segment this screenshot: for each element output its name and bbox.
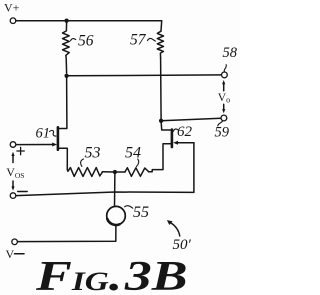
resistor R54 <box>125 168 149 177</box>
label Vo <box>218 92 230 105</box>
label minus sign <box>18 191 28 193</box>
terminal 59 <box>221 115 227 121</box>
terminal 58 <box>222 72 228 78</box>
svg-text:FIG.3B: FIG.3B <box>35 253 188 295</box>
label 57 with tilde <box>130 32 155 49</box>
label 62 with tilde <box>173 124 192 140</box>
wire source Q61 down to R53 <box>59 148 67 169</box>
arrow Vo down toward 59 <box>222 104 225 113</box>
wire R57 bottom down to node at rail 59 <box>160 58 163 121</box>
svg-text:V: V <box>6 247 15 261</box>
node junction dot rail 59 / drain Q62 <box>159 119 163 123</box>
wire top rail from V+ to R57 <box>16 20 162 22</box>
wire drain Q61 up to node <box>59 76 67 129</box>
wire R54 right up to source Q62 <box>149 144 171 172</box>
transistor Q61 channel bar <box>57 127 60 149</box>
terminal V+ <box>10 18 16 24</box>
wire rail to terminal 59 <box>161 118 221 121</box>
svg-text:54: 54 <box>125 145 141 162</box>
arrow Vos up <box>11 152 14 163</box>
resistor R53 <box>67 168 102 177</box>
svg-text:V+: V+ <box>4 1 20 15</box>
wire R53 right to node <box>103 171 115 173</box>
label 61 with curl <box>36 126 56 142</box>
wire drain Q62 to node <box>161 121 171 130</box>
gate Q61 wire with arrow <box>16 143 57 147</box>
label plus sign <box>17 147 24 155</box>
terminal Vos+ <box>10 142 16 148</box>
wire rail to terminal 58 <box>67 74 222 77</box>
node junction dot R56 bottom / drain Q61 / rail 58 <box>64 74 68 78</box>
current source I55 circle <box>107 206 126 225</box>
resistor R56 <box>63 23 70 73</box>
label 55 with squiggle <box>125 204 149 221</box>
terminal Vos- <box>10 193 16 199</box>
svg-text:56: 56 <box>78 32 94 49</box>
node junction dot top of R56 <box>64 19 68 23</box>
svg-text:61: 61 <box>36 126 51 142</box>
svg-text:59: 59 <box>215 125 230 141</box>
arrow Vo up toward 58 <box>222 80 225 91</box>
svg-text:53: 53 <box>85 145 101 162</box>
squiggle lead to label 58 <box>224 65 226 72</box>
resistor R57 <box>157 21 163 58</box>
arrow pointer 50' <box>167 220 180 236</box>
squiggle lead to label 59 <box>218 121 223 126</box>
label 53 with curl <box>81 145 101 167</box>
caption Fig.3B <box>35 253 188 295</box>
wire gate Q62 down and left to Vos- terminal <box>16 143 194 196</box>
arrow Vos down <box>11 181 14 191</box>
svg-text:62: 62 <box>177 124 193 140</box>
terminal V- <box>12 239 18 245</box>
svg-text:Vo: Vo <box>218 92 230 105</box>
svg-text:55: 55 <box>133 204 149 221</box>
wire node to R54 <box>115 171 125 173</box>
svg-text:58: 58 <box>223 45 238 61</box>
label 56 with tilde <box>71 32 94 49</box>
label 54 with curl <box>125 145 141 167</box>
svg-text:57: 57 <box>130 32 147 49</box>
svg-text:VOS: VOS <box>6 165 24 180</box>
wire node down to current source <box>114 172 116 207</box>
gate Q62 wire with arrow <box>173 141 194 145</box>
svg-text:50′: 50′ <box>173 237 192 253</box>
node junction dot R53/R54/current source <box>113 170 117 174</box>
transistor Q62 channel bar <box>171 130 174 148</box>
wire current source down and left to V- terminal <box>18 225 116 242</box>
